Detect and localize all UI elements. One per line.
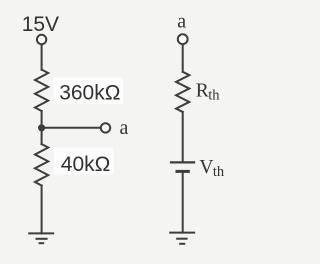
terminal a circle (left circuit) — [101, 123, 110, 132]
svg-text:15V: 15V — [22, 13, 59, 36]
wire battery to ground — [182, 171, 184, 232]
svg-text:a: a — [120, 117, 129, 139]
resistor R2 40k zigzag — [35, 144, 48, 185]
white label box 40k — [54, 148, 114, 175]
terminal a circle (right circuit) — [178, 34, 188, 44]
resistor Rth zigzag — [176, 72, 189, 112]
wire from R1 to node a junction — [41, 111, 43, 128]
wire terminal a to Rth — [182, 44, 184, 71]
battery Vth bottom plate — [176, 170, 190, 173]
wire junction to 40k — [41, 128, 43, 144]
svg-text:a: a — [177, 10, 186, 32]
battery Vth top plate — [170, 161, 195, 163]
wire Rth to battery — [182, 112, 184, 162]
node 15V terminal circle — [37, 35, 46, 44]
svg-text:40kΩ: 40kΩ — [61, 153, 111, 176]
resistor R1 360k zigzag — [35, 70, 48, 111]
svg-text:360kΩ: 360kΩ — [59, 82, 120, 105]
white label box 360k — [54, 78, 124, 105]
ground (right) — [169, 233, 195, 244]
wire from 15V terminal to R1 — [41, 45, 43, 70]
ground (left) — [28, 233, 54, 243]
junction dot node a — [38, 124, 45, 131]
wire from R2 to ground — [41, 186, 43, 234]
wire node a horizontal — [42, 127, 101, 129]
